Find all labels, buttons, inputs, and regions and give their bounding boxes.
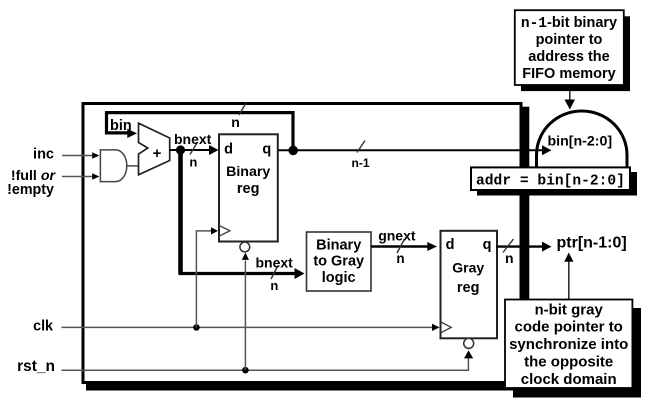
gray reg: [441, 231, 498, 338]
bus slash on feedback wire: [239, 103, 246, 115]
wire bnext to gray logic: [178, 150, 183, 274]
svg-text:pointer to: pointer to: [536, 32, 603, 48]
wire gnext: [371, 245, 429, 247]
bus slash n-1: [357, 141, 365, 153]
svg-text:bnext: bnext: [174, 131, 212, 147]
module boundary right shadow bar: [521, 107, 530, 390]
svg-text:to Gray: to Gray: [313, 254, 364, 270]
callout box (bottom) shadow: [513, 308, 641, 398]
svg-text:clock domain: clock domain: [521, 371, 617, 388]
module boundary bottom shadow bar: [86, 384, 532, 391]
module boundary box: [83, 104, 521, 383]
callout box n-bit gray code pointer: [505, 300, 632, 389]
svg-text:d: d: [224, 141, 233, 157]
svg-text:reg: reg: [457, 280, 480, 296]
callout box n-1-bit binary pointer: [515, 10, 624, 85]
svg-text:bnext: bnext: [256, 255, 294, 271]
svg-text:bin[n-2:0]: bin[n-2:0]: [548, 133, 613, 149]
svg-text:address the: address the: [528, 49, 609, 65]
binary to gray logic box: [307, 232, 372, 291]
junction bnext: [176, 145, 185, 154]
svg-text:n: n: [231, 114, 240, 130]
wire rst_n to binary reg: [244, 261, 246, 371]
svg-text:rst_n: rst_n: [17, 358, 55, 375]
svg-text:n: n: [505, 250, 514, 266]
svg-text:bin: bin: [110, 118, 132, 134]
svg-text:gnext: gnext: [378, 227, 416, 243]
wire bnext (adder to binary reg d): [170, 149, 211, 151]
svg-text:reg: reg: [237, 181, 260, 197]
addr box shadow: [477, 172, 637, 196]
wire inc input: [62, 155, 93, 157]
svg-text:Binary: Binary: [226, 164, 270, 180]
and gate U1: [100, 150, 126, 182]
wire clk to binary reg: [196, 231, 212, 328]
svg-text:d: d: [446, 237, 455, 253]
wire clk rail: [62, 326, 433, 328]
svg-text:ptr[n-1:0]: ptr[n-1:0]: [557, 235, 627, 252]
gray reg clock triangle: [441, 322, 451, 333]
binary reg: [219, 134, 278, 241]
svg-text:clk: clk: [33, 318, 53, 334]
gray reg reset bubble: [464, 338, 474, 348]
svg-text:n: n: [396, 251, 404, 266]
junction clk: [193, 324, 200, 331]
bus slash bnext: [190, 143, 197, 155]
svg-text:n-1: n-1: [352, 156, 370, 170]
wire rst_n rail: [62, 359, 469, 371]
svg-text:logic: logic: [322, 270, 356, 286]
junction q output: [288, 146, 298, 156]
wire q to FIFO memory (n-1 bus): [278, 149, 544, 151]
wire ptr output: [497, 245, 545, 247]
svg-text:q: q: [262, 141, 271, 157]
adder: [139, 123, 170, 175]
svg-text:n: n: [189, 154, 197, 169]
svg-text:the opposite: the opposite: [524, 354, 613, 371]
svg-text:!empty: !empty: [7, 182, 54, 198]
junction rst_n: [242, 367, 249, 374]
wire ptr callout arrow: [568, 261, 570, 299]
svg-text:q: q: [483, 237, 492, 253]
wire and gate output: [127, 165, 139, 167]
FIFO memory dome: [537, 111, 628, 169]
svg-text:inc: inc: [33, 146, 54, 162]
bus slash ptr: [503, 239, 514, 253]
svg-text:synchronize into: synchronize into: [509, 336, 628, 353]
svg-text:Gray: Gray: [452, 260, 484, 276]
wire bin feedback (q to adder): [107, 113, 294, 151]
bus slash bnext lower: [271, 266, 278, 280]
callout box (top) shadow: [521, 16, 630, 91]
svg-text:FIFO memory: FIFO memory: [522, 66, 615, 82]
svg-text:n-1-bit binary: n-1-bit binary: [521, 15, 617, 32]
svg-text:code pointer to: code pointer to: [515, 319, 623, 336]
svg-text:addr = bin[n-2:0]: addr = bin[n-2:0]: [476, 174, 625, 190]
svg-text:+: +: [153, 145, 162, 162]
binary reg clock triangle: [219, 226, 230, 237]
wire !full/!empty input: [62, 176, 93, 178]
bus slash gnext: [397, 239, 405, 253]
binary reg reset bubble: [240, 242, 250, 252]
addr assignment box: [471, 167, 630, 190]
wire callout to dome: [569, 91, 571, 101]
svg-text:n: n: [270, 278, 278, 293]
svg-text:Binary: Binary: [316, 237, 361, 253]
svg-text:n-bit gray: n-bit gray: [535, 301, 604, 319]
